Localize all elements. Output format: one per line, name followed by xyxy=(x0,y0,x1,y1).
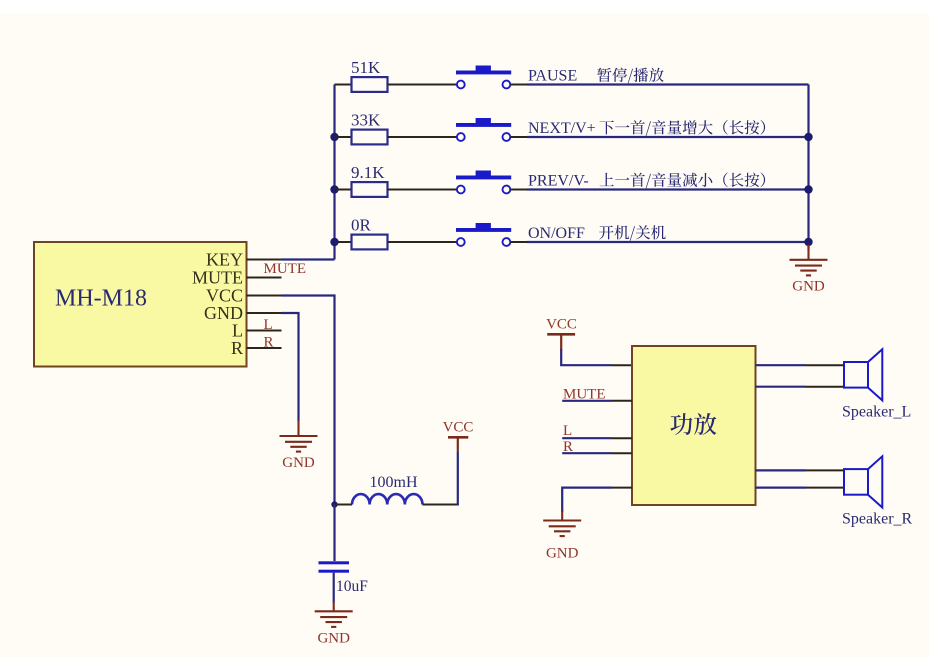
svg-text:VCC: VCC xyxy=(443,420,474,436)
wire: S1 to right bus, net PAUSE xyxy=(510,84,527,86)
svg-text:10uF: 10uF xyxy=(336,578,368,595)
wire L xyxy=(562,437,612,439)
wire xyxy=(335,504,353,506)
svg-text:GND: GND xyxy=(317,631,350,647)
pushbutton switch S4 xyxy=(456,223,511,246)
module U1 MH-M18 xyxy=(34,242,247,367)
power port GND (amp) xyxy=(543,511,581,537)
pushbutton switch S2 xyxy=(456,118,511,141)
svg-text:PREV/V-: PREV/V- xyxy=(528,173,589,190)
svg-text:L: L xyxy=(563,423,572,439)
capacitor C1 10uF xyxy=(319,561,350,572)
svg-text:MUTE: MUTE xyxy=(264,261,307,277)
pushbutton switch S3 xyxy=(456,171,511,194)
wire xyxy=(423,504,458,506)
inductor L1 100mH xyxy=(352,494,423,504)
junction at inductor xyxy=(331,501,337,507)
svg-text:9.1K: 9.1K xyxy=(351,163,385,182)
resistor R3 (9.1K) xyxy=(335,163,388,197)
wire R xyxy=(562,452,612,454)
resistor R2 (33K) xyxy=(335,111,388,145)
wire xyxy=(333,573,335,603)
pin GND xyxy=(247,312,282,314)
svg-text:KEY: KEY xyxy=(206,250,243,270)
resistor R1 (51K) xyxy=(335,58,388,92)
junction xyxy=(330,185,338,193)
svg-text:NEXT/V+: NEXT/V+ xyxy=(528,120,596,137)
amp GND pin xyxy=(612,487,632,489)
speaker Speaker_L xyxy=(844,349,882,400)
wire: R1 to switch S1 xyxy=(388,84,457,86)
junction xyxy=(804,238,812,246)
speaker Speaker_R xyxy=(844,456,882,507)
pin R xyxy=(247,347,282,349)
power port VCC (middle) xyxy=(457,437,459,452)
svg-text:0R: 0R xyxy=(351,216,372,235)
svg-text:100mH: 100mH xyxy=(370,474,418,491)
wire MUTE xyxy=(562,400,612,402)
net label chinese 2 xyxy=(600,120,766,136)
svg-text:L: L xyxy=(264,317,273,333)
wire: amp GND xyxy=(562,488,612,512)
svg-text:VCC: VCC xyxy=(546,317,577,333)
amp pin xyxy=(612,364,632,366)
pin KEY xyxy=(247,259,282,261)
net label chinese 3 xyxy=(600,173,766,189)
wire: KEY to bus xyxy=(282,258,335,260)
module U2 amplifier xyxy=(632,346,756,505)
wire: S3 to right bus, net PREV/V- xyxy=(510,189,527,191)
junction xyxy=(804,133,812,141)
net label chinese 1 xyxy=(597,68,664,84)
svg-text:ON/OFF: ON/OFF xyxy=(528,225,585,242)
wire: S2 to right bus, net NEXT/V+ xyxy=(510,136,527,138)
wire: R2 to switch S2 xyxy=(388,136,457,138)
power port GND (below capacitor) xyxy=(315,601,353,627)
resistor R4 (0R) xyxy=(335,216,388,250)
svg-text:PAUSE: PAUSE xyxy=(528,68,577,85)
svg-text:MUTE: MUTE xyxy=(192,268,243,288)
svg-text:GND: GND xyxy=(546,546,579,562)
wire: down to capacitor xyxy=(333,505,335,562)
junction xyxy=(804,185,812,193)
svg-text:R: R xyxy=(231,338,243,358)
svg-text:Speaker_R: Speaker_R xyxy=(842,511,913,528)
wire: GND pin down xyxy=(282,313,299,421)
svg-text:GND: GND xyxy=(792,279,825,295)
wire: left resistor bus xyxy=(333,85,335,260)
wire: R4 to switch S4 xyxy=(388,241,457,243)
net label chinese 4 xyxy=(599,225,666,241)
pin VCC xyxy=(247,295,282,297)
junction at 0R row xyxy=(330,238,338,246)
wire to speaker xyxy=(756,469,807,471)
wire: R3 to switch S3 xyxy=(388,189,457,191)
junction xyxy=(330,133,338,141)
wire: VCC down to inductor xyxy=(282,296,335,505)
pushbutton switch S1 xyxy=(456,66,511,89)
power port GND (right of switches) xyxy=(790,245,828,276)
svg-text:MH-M18: MH-M18 xyxy=(55,286,147,312)
pin MUTE xyxy=(247,277,282,279)
wire: right vertical bus xyxy=(807,85,809,250)
svg-text:Speaker_L: Speaker_L xyxy=(842,404,911,421)
svg-text:33K: 33K xyxy=(351,111,381,130)
svg-text:R: R xyxy=(264,335,274,351)
svg-text:GND: GND xyxy=(282,455,315,471)
pin L xyxy=(247,330,282,332)
label 功放 xyxy=(670,413,716,435)
wire xyxy=(457,452,459,506)
wire: S4 to right bus, net ON/OFF xyxy=(510,241,527,243)
wire to speaker xyxy=(756,364,807,366)
svg-text:51K: 51K xyxy=(351,58,381,77)
wire: VCC to amp xyxy=(561,349,612,365)
